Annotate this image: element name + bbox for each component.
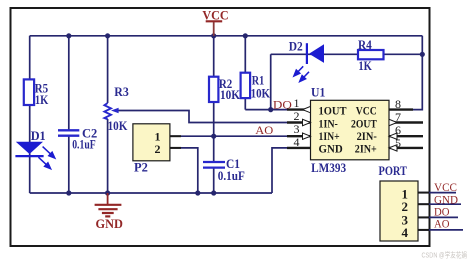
junction right vertical at R4 — [420, 52, 425, 57]
svg-text:VCC: VCC — [356, 106, 377, 118]
svg-text:R3: R3 — [114, 85, 129, 99]
junction DO line at D2 drop — [268, 107, 273, 112]
svg-text:10K: 10K — [108, 119, 128, 133]
svg-text:4: 4 — [402, 225, 409, 240]
svg-text:7: 7 — [395, 110, 401, 124]
wire D2 R4 horizontal — [271, 53, 423, 55]
U1 internal pin names — [319, 106, 378, 156]
diode D1 (LED) — [15, 129, 54, 169]
op-amp U1 LM393 body — [311, 100, 390, 160]
svg-text:2IN-: 2IN- — [357, 131, 377, 143]
svg-text:D2: D2 — [289, 40, 303, 54]
junction top bus at R1 — [243, 33, 248, 38]
wire D2 cathode drop — [270, 54, 272, 109]
svg-text:CSDN @学友花娟: CSDN @学友花娟 — [422, 250, 468, 260]
capacitor C1 — [203, 162, 225, 168]
svg-text:6: 6 — [395, 123, 401, 137]
wire P2 pin2 to ground bus — [170, 148, 198, 193]
svg-text:DO: DO — [273, 97, 292, 111]
junction top bus at R3 — [105, 33, 110, 38]
wire PORT pin3 — [418, 216, 458, 218]
svg-text:2: 2 — [294, 109, 300, 123]
svg-text:3: 3 — [294, 122, 300, 136]
potentiometer R3 — [104, 85, 128, 133]
svg-text:P2: P2 — [134, 161, 148, 175]
U1 pin numbers right 8-5 — [395, 97, 401, 150]
wire top VCC bus — [30, 35, 423, 37]
wire bottom GND bus — [30, 192, 272, 194]
svg-text:0.1uF: 0.1uF — [218, 169, 245, 183]
connector P2 — [133, 124, 170, 161]
wire PORT pin1 — [418, 192, 456, 194]
wire R3 branch — [107, 36, 109, 193]
svg-text:PORT: PORT — [379, 164, 408, 178]
svg-text:2OUT: 2OUT — [351, 119, 377, 131]
U1 pin stubs left — [287, 110, 311, 148]
svg-text:0.1uF: 0.1uF — [72, 138, 96, 152]
wire R1 branch — [244, 36, 246, 110]
U1 pin arrows — [303, 106, 398, 151]
svg-text:LM393: LM393 — [311, 161, 346, 175]
ground symbol GND — [95, 193, 122, 216]
svg-text:D1: D1 — [31, 129, 46, 143]
wire PORT pin4 — [418, 229, 463, 231]
svg-text:2IN+: 2IN+ — [355, 144, 377, 156]
resistor R1 — [241, 73, 251, 98]
wire R2/C1 branch — [213, 36, 215, 193]
svg-text:1: 1 — [294, 96, 300, 110]
wire right vertical to U1 pin8 — [389, 36, 422, 110]
svg-text:U1: U1 — [311, 86, 325, 100]
wire U1 pin4 to ground bus — [272, 148, 311, 193]
wire R3 wiper to U1 pin2 — [117, 111, 311, 123]
svg-text:AO: AO — [255, 123, 273, 137]
svg-text:R4: R4 — [358, 38, 372, 52]
junction bottom bus at C1 — [211, 190, 216, 195]
svg-text:1K: 1K — [35, 93, 49, 107]
svg-text:10K: 10K — [251, 86, 271, 100]
svg-text:1IN-: 1IN- — [319, 119, 338, 131]
junction top bus at C2 — [66, 33, 71, 38]
wire AO line P2 pin1 to U1 pin3 — [170, 135, 311, 137]
wire PORT pin2 — [418, 203, 461, 205]
VCC power symbol — [202, 8, 228, 36]
junction bottom bus at P2 pin2 — [195, 190, 200, 195]
svg-text:2: 2 — [155, 142, 161, 156]
svg-text:10K: 10K — [220, 88, 240, 102]
svg-text:VCC: VCC — [202, 8, 228, 23]
capacitor C2 — [58, 130, 79, 135]
P2 pin stubs — [170, 136, 181, 148]
resistor R4 — [358, 50, 384, 59]
diode D2 (LED) — [289, 40, 324, 82]
U1 pin stubs right — [389, 110, 423, 148]
svg-text:GND: GND — [319, 144, 343, 156]
resistor R2 — [209, 77, 218, 102]
svg-text:8: 8 — [395, 97, 401, 111]
wire C2 branch — [68, 36, 70, 193]
resistor R5 — [24, 79, 34, 105]
svg-text:4: 4 — [294, 135, 300, 149]
wire left branch R5/D1 — [29, 36, 31, 193]
junction bottom bus at R3/GND — [105, 190, 110, 195]
svg-text:1IN+: 1IN+ — [319, 131, 340, 143]
PORT pin stubs — [418, 193, 429, 230]
svg-text:AO: AO — [434, 217, 450, 231]
junction bottom bus at C2 — [66, 190, 71, 195]
svg-text:5: 5 — [395, 136, 401, 150]
junction AO line at R2/C1 — [211, 134, 216, 139]
wire DO line to U1 pin1 — [245, 109, 311, 111]
svg-text:1K: 1K — [358, 59, 372, 73]
svg-text:GND: GND — [96, 216, 123, 231]
U1 pin numbers left 1-4 — [294, 96, 300, 149]
svg-text:1OUT: 1OUT — [319, 106, 347, 118]
PORT pin numbers — [402, 187, 409, 241]
junction top bus at VCC/R2 — [211, 33, 216, 38]
